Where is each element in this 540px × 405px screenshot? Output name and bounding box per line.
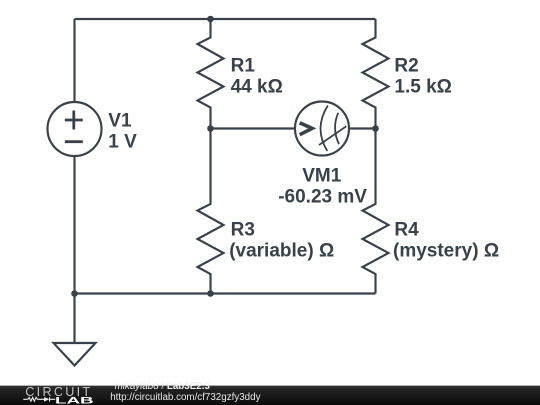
wire top rail [75,18,376,20]
footer bar [0,385,540,405]
wire: VM1 right lead [349,127,376,129]
wire: V1 bottom lead to bottom rail [73,156,75,294]
svg-text:VM1: VM1 [302,166,342,187]
svg-text:(mystery) Ω: (mystery) Ω [393,241,499,262]
voltage source V1 [48,102,102,156]
CircuitLab logo [0,0,120,405]
svg-text:R1: R1 [231,55,256,76]
ground [54,343,96,366]
svg-text:LAB: LAB [55,394,94,405]
node: bottom rail / R3 junction [207,290,214,297]
wire: V1 top lead to top rail [73,19,75,102]
node: top rail / R1 junction [207,16,214,23]
resistor R1 [198,19,224,129]
svg-text:-60.23 mV: -60.23 mV [278,187,367,208]
wire: ground lead [73,294,75,344]
svg-text:R2: R2 [394,55,418,76]
wire bottom rail [75,292,376,294]
node: bottom rail / V1-ground junction [71,290,78,297]
footer credit text [115,382,210,392]
svg-text:R4: R4 [394,220,419,241]
svg-text:44 kΩ: 44 kΩ [231,76,283,97]
wire: VM1 left lead [211,127,296,129]
voltmeter VM1 [295,102,349,156]
node: VM1 left / R1-R3 junction [207,125,214,132]
resistor R2 [363,19,389,129]
node: VM1 right / R2-R4 junction [372,125,379,132]
resistor R4 [363,129,389,294]
svg-text:(variable) Ω: (variable) Ω [229,241,334,262]
resistor R3 [198,129,224,294]
svg-text:R3: R3 [231,220,255,241]
svg-text:1.5 kΩ: 1.5 kΩ [394,76,452,97]
